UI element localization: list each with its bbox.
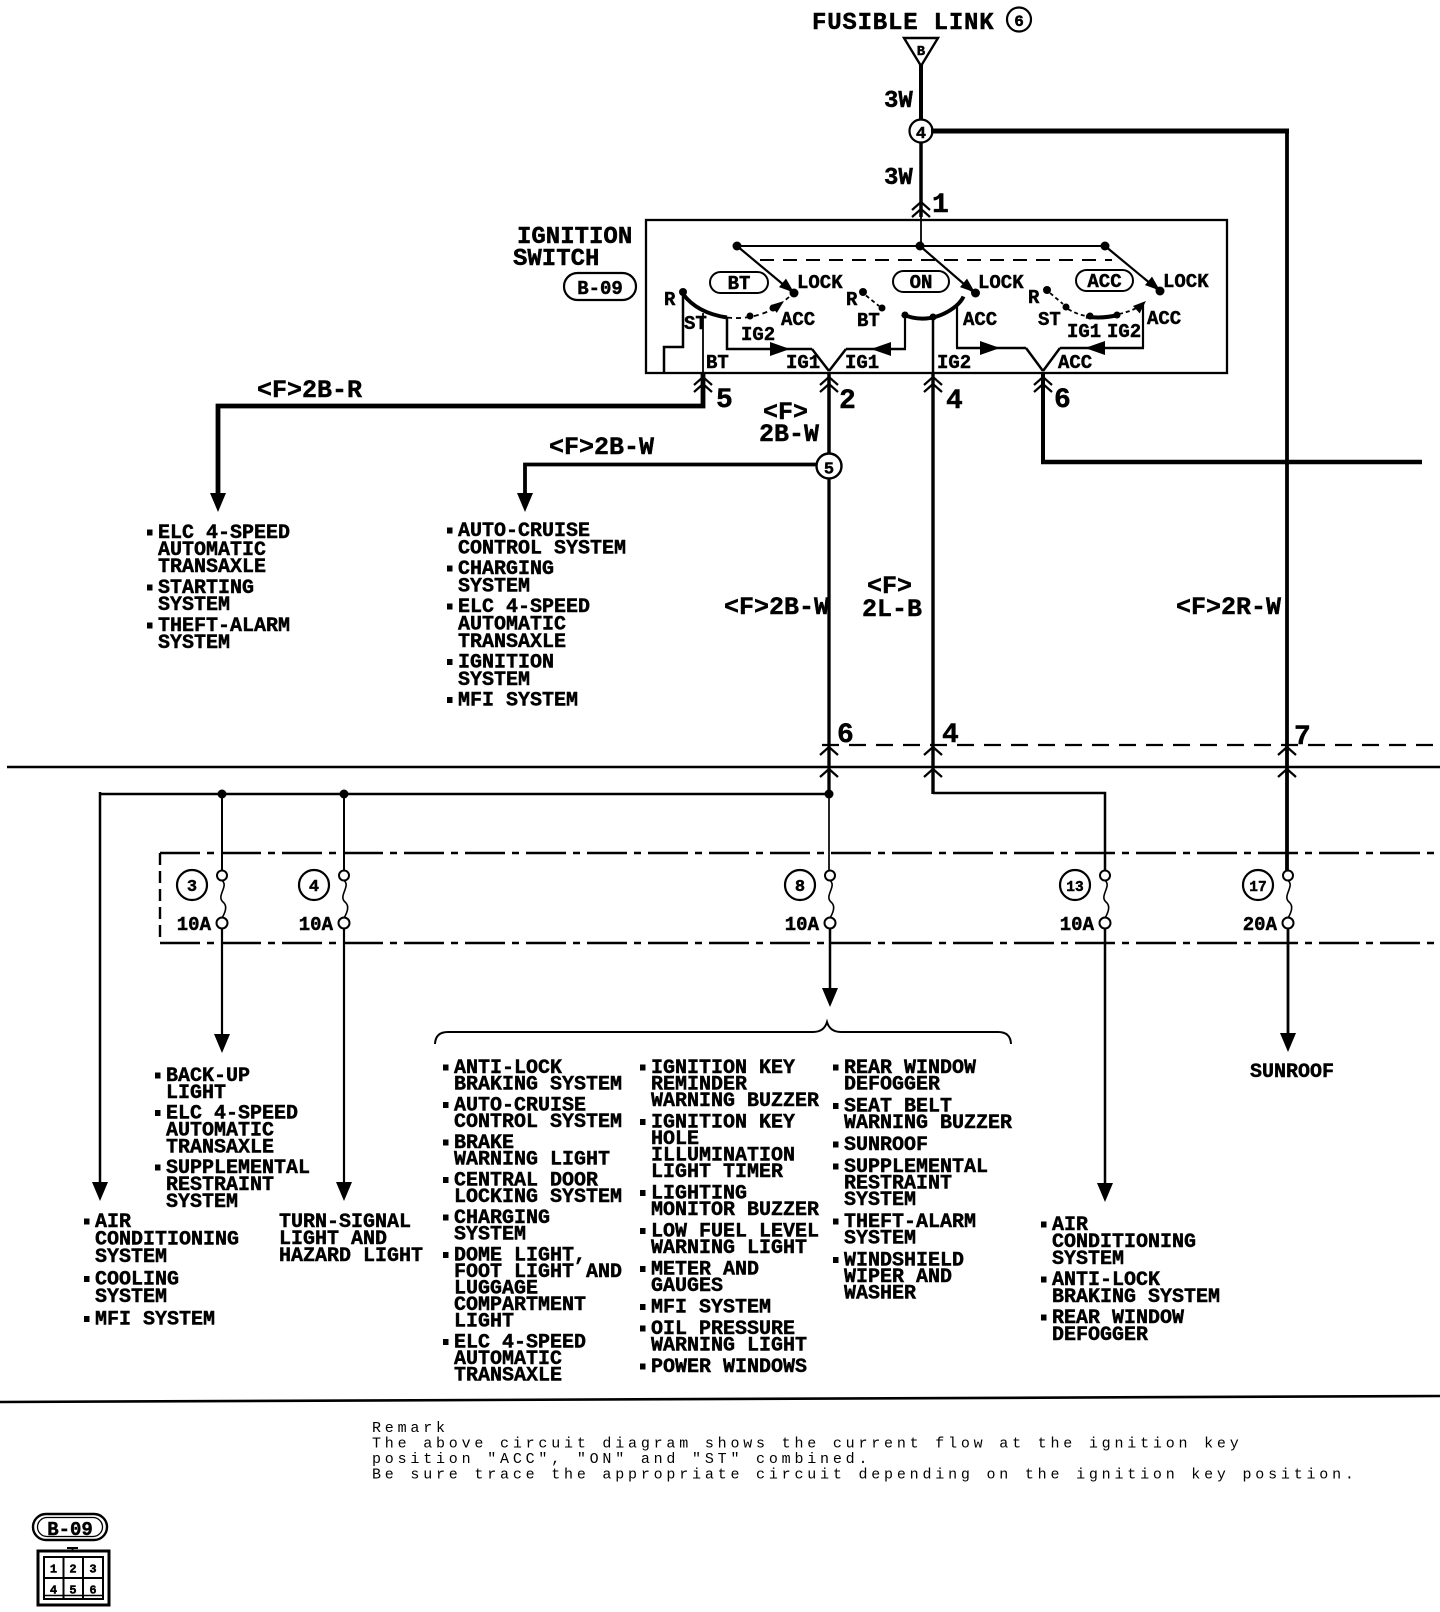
wire from fusible link to junction 4	[919, 64, 923, 121]
wire tap to fuse 8	[828, 794, 830, 876]
wire pin6 down	[1041, 374, 1045, 462]
contact IG2 left	[747, 313, 754, 320]
svg-text:ACC: ACC	[1058, 352, 1092, 374]
node fuse3 tap	[218, 790, 227, 799]
junction block outline	[160, 853, 1440, 943]
switch wiper BT-section	[737, 246, 799, 298]
svg-text:R: R	[846, 289, 858, 311]
wire pin5 to 2B-R run	[218, 374, 703, 494]
arrow ACC left	[1085, 341, 1105, 355]
svg-text:BT: BT	[857, 310, 880, 332]
wire junction4 to right rail	[931, 129, 1289, 134]
dashed R-ST right	[1050, 293, 1063, 304]
svg-text:B-09: B-09	[577, 278, 623, 300]
dashed R-BT middle	[866, 296, 879, 307]
system list fuse8 column2	[640, 1057, 819, 1379]
svg-text:SYSTEM: SYSTEM	[158, 632, 230, 655]
svg-text:MFI SYSTEM: MFI SYSTEM	[651, 1297, 771, 1320]
wire pin2 upper	[827, 374, 831, 455]
solid separator line	[7, 766, 1440, 768]
contact IG2 middle	[930, 314, 937, 321]
svg-text:SYSTEM: SYSTEM	[95, 1246, 167, 1269]
wire BT contact down	[702, 313, 704, 373]
svg-text:3: 3	[187, 878, 197, 897]
svg-text:SUNROOF: SUNROOF	[844, 1134, 928, 1157]
svg-text:WARNING BUZZER: WARNING BUZZER	[844, 1112, 1012, 1135]
svg-text:2B-W: 2B-W	[759, 420, 819, 449]
pin 5 chevrons	[694, 377, 712, 392]
wire fuse17 out	[1287, 928, 1290, 1034]
svg-text:SYSTEM: SYSTEM	[1052, 1248, 1124, 1271]
svg-text:10A: 10A	[177, 914, 212, 936]
svg-text:1: 1	[50, 1563, 57, 1577]
svg-text:SUNROOF: SUNROOF	[1250, 1061, 1334, 1084]
fuse 13 10A	[1060, 870, 1111, 936]
fuse 8 10A	[785, 870, 836, 936]
svg-text:ACC: ACC	[1147, 308, 1181, 330]
svg-text:LIGHT: LIGHT	[454, 1311, 514, 1334]
svg-text:ST: ST	[1038, 309, 1061, 331]
svg-text:4: 4	[50, 1584, 57, 1598]
svg-text:IG1: IG1	[845, 352, 879, 374]
svg-text:5: 5	[716, 385, 733, 416]
arrow ACC right	[980, 341, 1000, 355]
svg-text:WARNING LIGHT: WARNING LIGHT	[651, 1237, 807, 1260]
position label BT	[710, 272, 768, 295]
arrow fuse8	[822, 988, 838, 1007]
svg-text:6: 6	[1054, 385, 1071, 416]
wire junction4 down	[919, 142, 923, 217]
remark text	[372, 1420, 1358, 1484]
svg-text:IG1: IG1	[786, 352, 820, 374]
arc direction arrow right	[1133, 301, 1146, 313]
wire R step to box bottom	[664, 294, 683, 372]
system list fuse13	[1041, 1214, 1220, 1347]
svg-text:7: 7	[1294, 722, 1311, 753]
fuse 4 10A	[299, 870, 350, 936]
wire IG1 middle down	[904, 315, 906, 348]
svg-text:LOCK: LOCK	[797, 272, 843, 294]
svg-text:SYSTEM: SYSTEM	[454, 1224, 526, 1247]
svg-text:ACC: ACC	[781, 309, 815, 331]
node bus right	[1101, 242, 1110, 251]
svg-text:TRANSAXLE: TRANSAXLE	[158, 556, 266, 579]
dashed IG2-ACC right	[1119, 305, 1141, 314]
svg-text:17: 17	[1249, 880, 1266, 896]
crossing chevrons 2L-B	[924, 747, 942, 777]
svg-text:Be sure trace the appropriate: Be sure trace the appropriate circuit de…	[372, 1467, 1358, 1484]
svg-text:BRAKING SYSTEM: BRAKING SYSTEM	[454, 1074, 622, 1097]
svg-text:10A: 10A	[299, 914, 334, 936]
svg-text:Remark: Remark	[372, 1420, 449, 1437]
svg-text:<F>2B-W: <F>2B-W	[724, 593, 829, 622]
svg-text:3W: 3W	[884, 165, 913, 192]
svg-text:8: 8	[795, 878, 805, 897]
svg-text:4: 4	[942, 720, 959, 751]
contact IG2 right	[1114, 312, 1121, 319]
contact R middle	[859, 288, 867, 296]
wire fuse13 out	[1104, 928, 1107, 1184]
svg-text:20A: 20A	[1243, 914, 1278, 936]
svg-text:10A: 10A	[785, 914, 820, 936]
bus wire inside switch	[737, 245, 1105, 247]
crossing chevrons 2R-W	[1278, 747, 1296, 777]
node fuse8 tap	[825, 790, 834, 799]
system list fuse4	[279, 1211, 423, 1268]
svg-text:SYSTEM: SYSTEM	[166, 1191, 238, 1214]
svg-text:SYSTEM: SYSTEM	[158, 594, 230, 617]
svg-text:5: 5	[824, 461, 834, 480]
svg-text:R: R	[1028, 287, 1040, 309]
svg-text:ACC: ACC	[963, 309, 997, 331]
wire tap to fuse 4	[343, 794, 345, 876]
system list left branch	[84, 1211, 239, 1332]
svg-text:LIGHT TIMER: LIGHT TIMER	[651, 1161, 783, 1184]
pin 1 connector chevrons	[912, 202, 930, 217]
svg-text:LOCKING SYSTEM: LOCKING SYSTEM	[454, 1186, 622, 1209]
svg-text:IG2: IG2	[1107, 321, 1141, 343]
pin 4 chevrons	[924, 377, 942, 392]
system list fuse3	[155, 1065, 310, 1214]
arrow 2B-W down	[517, 493, 533, 512]
arrow 2B-R down	[210, 493, 226, 512]
system list fuse8 column3	[833, 1057, 1012, 1306]
contact IG1 right	[1087, 313, 1094, 320]
pin 2 chevrons	[820, 377, 838, 392]
svg-text:6: 6	[1014, 13, 1024, 31]
svg-text:CONTROL SYSTEM: CONTROL SYSTEM	[454, 1111, 622, 1134]
svg-text:WARNING LIGHT: WARNING LIGHT	[454, 1149, 610, 1172]
svg-text:GAUGES: GAUGES	[651, 1275, 723, 1298]
connector B-09 pin diagram	[38, 1548, 109, 1605]
svg-text:13: 13	[1066, 880, 1083, 896]
bus dashed wire	[760, 259, 1112, 261]
svg-text:DEFOGGER: DEFOGGER	[844, 1074, 940, 1097]
svg-text:4: 4	[946, 386, 963, 417]
wire distribution bus	[100, 793, 829, 796]
wire label (F)2L-B	[862, 572, 922, 624]
arrow fuse17 sunroof	[1280, 1033, 1296, 1052]
fuse 17 20A	[1243, 870, 1294, 936]
svg-text:IG2: IG2	[937, 352, 971, 374]
wire pin6 to right edge	[1041, 460, 1422, 465]
fuse 3 10A	[177, 870, 228, 936]
svg-text:LOCK: LOCK	[978, 272, 1024, 294]
arrow fuse3	[214, 1034, 230, 1053]
wire pin2 lower	[827, 478, 830, 795]
system list 2B-R	[147, 522, 290, 655]
wire fuse8 out	[829, 928, 832, 989]
svg-text:5: 5	[69, 1584, 76, 1598]
svg-text:IG1: IG1	[1067, 321, 1101, 343]
arrow fuse13	[1097, 1183, 1113, 1202]
wire V right arm pin2	[829, 349, 846, 371]
moving contact bar IG1-IG2 right	[1086, 315, 1118, 317]
svg-text:MFI SYSTEM: MFI SYSTEM	[458, 690, 578, 713]
svg-text:SYSTEM: SYSTEM	[844, 1189, 916, 1212]
contact R left	[679, 288, 687, 296]
wire right rail down (F)2R-W	[1285, 129, 1289, 876]
svg-text:ON: ON	[910, 272, 933, 294]
svg-text:MONITOR BUZZER: MONITOR BUZZER	[651, 1199, 819, 1222]
arrow IG1 right	[770, 342, 790, 356]
ignition switch U1 box	[646, 220, 1227, 373]
svg-text:BT: BT	[706, 352, 729, 374]
svg-text:ACC: ACC	[1087, 271, 1121, 293]
crossing chevrons 2B-W	[820, 747, 838, 777]
arrow IG1 left	[871, 342, 891, 356]
arc direction arrow left	[771, 301, 784, 313]
wire ACC middle down	[956, 304, 958, 348]
wire fuse3 out	[221, 928, 223, 1035]
svg-text:4: 4	[916, 125, 926, 144]
fusible link 6 title	[812, 8, 1031, 38]
svg-text:WARNING LIGHT: WARNING LIGHT	[651, 1335, 807, 1358]
wire into ignition switch	[920, 214, 922, 247]
wire fuse4 out	[343, 928, 345, 1183]
svg-text:position "ACC", "ON" and "ST": position "ACC", "ON" and "ST" combined.	[372, 1451, 871, 1468]
position label ON	[893, 271, 949, 294]
svg-text:B: B	[917, 44, 926, 60]
svg-text:TRANSAXLE: TRANSAXLE	[454, 1365, 562, 1388]
brace fuse8 outputs	[435, 1022, 1011, 1044]
moving contact arc middle	[902, 297, 964, 319]
svg-text:2L-B: 2L-B	[862, 595, 922, 624]
wire tap to fuse 3	[221, 794, 223, 876]
svg-text:FUSIBLE LINK: FUSIBLE LINK	[812, 10, 994, 37]
svg-text:6: 6	[89, 1584, 96, 1598]
contact R right	[1043, 286, 1051, 294]
wire IG1 merge horizontal	[846, 348, 906, 351]
bottom border line	[0, 1396, 1440, 1402]
system list 2B-W	[447, 520, 626, 713]
svg-text:2: 2	[69, 1563, 76, 1577]
svg-text:DEFOGGER: DEFOGGER	[1052, 1324, 1148, 1347]
junction circle 4	[910, 120, 933, 145]
wire IG2 to IG1 merge	[727, 317, 812, 349]
contact IG1 middle	[902, 312, 909, 319]
arrow fuse4	[336, 1182, 352, 1201]
svg-text:SYSTEM: SYSTEM	[844, 1228, 916, 1251]
svg-text:MFI SYSTEM: MFI SYSTEM	[95, 1309, 215, 1332]
wire 2L-B jog to fuse 13	[933, 793, 1105, 876]
node bus center	[916, 242, 925, 251]
wire ACC right down	[1142, 303, 1144, 348]
wire V left arm pin6	[1026, 348, 1043, 371]
position label ACC	[1076, 270, 1133, 293]
svg-text:3W: 3W	[884, 88, 913, 115]
moving contact arc left	[683, 294, 727, 318]
contact arc dashed left	[727, 297, 789, 318]
svg-text:POWER WINDOWS: POWER WINDOWS	[651, 1356, 807, 1379]
connector label B-09 bottom	[33, 1514, 107, 1541]
pin 6 chevrons	[1034, 377, 1052, 392]
wire V left arm pin2	[812, 349, 829, 371]
svg-text:2: 2	[839, 386, 856, 417]
contact BT middle	[879, 305, 886, 312]
svg-text:R: R	[664, 289, 676, 311]
wire left branch down	[99, 792, 102, 1183]
node bus left	[733, 242, 742, 251]
svg-text:<F>2B-W: <F>2B-W	[549, 433, 654, 462]
svg-text:3: 3	[89, 1563, 96, 1577]
dashed firewall line	[822, 744, 1440, 746]
svg-text:6: 6	[837, 720, 854, 751]
svg-text:The above circuit diagram show: The above circuit diagram shows the curr…	[372, 1436, 1243, 1453]
node fuse4 tap	[340, 790, 349, 799]
switch wiper ACC-section	[1105, 246, 1165, 296]
ignition switch label	[513, 224, 632, 273]
junction circle 5	[817, 454, 842, 480]
connector label B-09	[564, 273, 636, 300]
svg-text:1: 1	[932, 190, 949, 221]
wire V right arm pin6	[1043, 348, 1060, 371]
switch wiper ON-section	[920, 246, 980, 298]
svg-text:HAZARD LIGHT: HAZARD LIGHT	[279, 1245, 423, 1268]
contact ACC left	[770, 305, 777, 312]
svg-text:10A: 10A	[1060, 914, 1095, 936]
wire 2B-W branch	[525, 465, 817, 495]
svg-text:SWITCH: SWITCH	[513, 246, 599, 273]
svg-text:BT: BT	[728, 273, 751, 295]
dashed ST-IG1 right	[1068, 309, 1086, 316]
svg-text:B-09: B-09	[47, 1519, 93, 1541]
wire ACC merge right	[956, 347, 1026, 350]
svg-text:4: 4	[309, 878, 319, 897]
system list fuse8 column1	[443, 1057, 622, 1388]
wire ACC merge left	[1060, 347, 1144, 350]
wire IG2 middle down pin4	[932, 317, 935, 374]
svg-text:SYSTEM: SYSTEM	[95, 1286, 167, 1309]
svg-text:<F>2B-R: <F>2B-R	[257, 376, 362, 405]
svg-text:<F>2R-W: <F>2R-W	[1176, 593, 1281, 622]
svg-text:WASHER: WASHER	[844, 1283, 916, 1306]
svg-text:BRAKING SYSTEM: BRAKING SYSTEM	[1052, 1286, 1220, 1309]
svg-text:LOCK: LOCK	[1163, 271, 1209, 293]
svg-text:WARNING BUZZER: WARNING BUZZER	[651, 1090, 819, 1113]
fusible link symbol B	[904, 38, 938, 66]
wire pin4 down	[931, 374, 934, 794]
contact ST right	[1063, 304, 1070, 311]
arrow left branch	[92, 1182, 108, 1201]
